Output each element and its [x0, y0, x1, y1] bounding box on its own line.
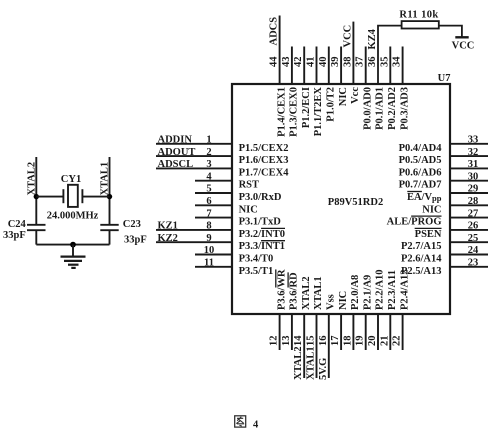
- pin 43 wire (P1.3/CEX0): [281, 47, 300, 137]
- svg-text:P0.3/AD3: P0.3/AD3: [399, 87, 410, 130]
- svg-text:29: 29: [468, 184, 479, 195]
- svg-text:16: 16: [318, 336, 329, 347]
- svg-text:22: 22: [392, 336, 403, 347]
- pin 32 wire (P0.5/AD5): [399, 147, 488, 166]
- svg-text:38: 38: [342, 57, 353, 68]
- pin 34 wire (P0.3/AD3): [392, 47, 411, 130]
- svg-text:34: 34: [392, 56, 403, 67]
- svg-text:P1.2/ECI: P1.2/ECI: [301, 87, 312, 128]
- svg-text:P2.0/A8: P2.0/A8: [350, 275, 361, 310]
- svg-text:43: 43: [281, 57, 292, 68]
- pin 40 wire (P1.0/T2): [318, 47, 337, 122]
- pin 30 wire (P0.7/AD7): [399, 171, 488, 190]
- svg-text:32: 32: [468, 147, 479, 158]
- svg-text:P1.7/CEX4: P1.7/CEX4: [239, 167, 290, 178]
- svg-text:10: 10: [204, 245, 215, 256]
- pin 20 wire (P2.2/A10): [367, 269, 386, 350]
- svg-text:P1.3/CEX0: P1.3/CEX0: [289, 87, 300, 137]
- svg-text:P1.0/T2: P1.0/T2: [326, 87, 337, 122]
- svg-text:28: 28: [468, 196, 479, 207]
- svg-text:C24: C24: [8, 219, 27, 230]
- pin 4 wire (RST): [195, 171, 259, 190]
- svg-text:33pF: 33pF: [3, 230, 26, 241]
- pin 44 wire (P1.4/CEX1): [269, 16, 288, 137]
- pin 36 wire (P0.1/AD1): [367, 26, 402, 130]
- pin 25 wire (P2.7/A15): [401, 233, 488, 252]
- svg-text:24: 24: [468, 245, 479, 256]
- pin 29 wire (EA/Vpp): [407, 184, 488, 204]
- svg-text:5: 5: [206, 184, 211, 195]
- wire C23 down: [109, 230, 111, 244]
- svg-text:NIC: NIC: [338, 87, 349, 106]
- svg-text:P0.4/AD4: P0.4/AD4: [399, 143, 443, 154]
- wire crystal to XTAL1: [82, 196, 109, 198]
- svg-text:2: 2: [206, 147, 211, 158]
- svg-text:EA/Vpp: EA/Vpp: [407, 192, 442, 203]
- svg-text:KZ4: KZ4: [367, 28, 378, 49]
- svg-text:5V.G: 5V.G: [318, 358, 329, 380]
- pin 35 wire (P0.2/AD2): [379, 47, 398, 130]
- resistor R11 10k: [399, 10, 438, 29]
- pin 19 wire (P2.1/A9): [355, 275, 374, 350]
- pin 3 wire (P1.7/CEX4): [156, 159, 289, 178]
- svg-text:17: 17: [330, 336, 341, 347]
- crystal CY1 24.000MHz: [47, 174, 99, 221]
- junction dot XTAL2: [34, 194, 39, 199]
- svg-text:ADSCL: ADSCL: [158, 159, 194, 170]
- svg-text:KZ1: KZ1: [158, 221, 178, 232]
- svg-text:31: 31: [468, 159, 479, 170]
- pin 39 wire (NIC): [330, 47, 349, 107]
- pin 7 wire (P3.1/TxD): [195, 208, 281, 227]
- pin 15 wire (XTAL1): [306, 276, 325, 380]
- svg-text:VCC: VCC: [452, 41, 475, 52]
- svg-text:ADOUT: ADOUT: [158, 147, 196, 158]
- pin 22 wire (P2.4/A12): [392, 269, 411, 350]
- pin 10 wire (P3.4/T0): [195, 245, 273, 264]
- svg-text:R11 10k: R11 10k: [399, 10, 438, 21]
- svg-text:XTAL1: XTAL1: [306, 346, 317, 380]
- svg-text:18: 18: [342, 336, 353, 347]
- svg-text:ALE/PROG: ALE/PROG: [387, 217, 442, 228]
- power symbol VCC: [452, 37, 475, 51]
- svg-text:36: 36: [367, 57, 378, 68]
- svg-text:Vcc: Vcc: [350, 87, 361, 104]
- pin 42 wire (P1.2/ECI): [293, 47, 312, 129]
- pin 9 wire (P3.3/INT1): [156, 233, 285, 252]
- svg-text:C23: C23: [123, 219, 141, 230]
- svg-text:P0.7/AD7: P0.7/AD7: [399, 180, 442, 191]
- svg-text:42: 42: [293, 57, 304, 68]
- wire R11 to VCC: [439, 26, 462, 37]
- svg-text:13: 13: [281, 336, 292, 347]
- svg-text:35: 35: [379, 57, 390, 68]
- svg-text:P89V51RD2: P89V51RD2: [328, 197, 383, 208]
- svg-text:12: 12: [269, 336, 280, 347]
- pin 11 wire (P3.5/T1): [195, 258, 273, 277]
- svg-text:23: 23: [468, 258, 479, 269]
- svg-text:P3.6/WR: P3.6/WR: [276, 269, 287, 310]
- svg-text:P2.3/A11: P2.3/A11: [387, 270, 398, 310]
- svg-text:8: 8: [206, 221, 211, 232]
- svg-text:20: 20: [367, 336, 378, 347]
- svg-text:U7: U7: [438, 73, 451, 84]
- svg-text:XTAL2: XTAL2: [27, 162, 38, 196]
- svg-text:7: 7: [206, 208, 211, 219]
- svg-text:4: 4: [253, 419, 259, 430]
- svg-text:P3.5/T1: P3.5/T1: [239, 266, 274, 277]
- pin 24 wire (P2.6/A14): [401, 245, 488, 264]
- pin 33 wire (P0.4/AD4): [399, 135, 488, 154]
- svg-text:19: 19: [355, 336, 366, 347]
- svg-text:1: 1: [206, 135, 211, 146]
- svg-text:P1.1/T2EX: P1.1/T2EX: [313, 87, 324, 137]
- node XTAL2: [27, 157, 38, 225]
- svg-text:XTAL2: XTAL2: [293, 346, 304, 380]
- svg-text:P1.4/CEX1: P1.4/CEX1: [276, 87, 287, 137]
- svg-text:25: 25: [468, 233, 479, 244]
- capacitor C23 33pF: [100, 219, 146, 246]
- svg-text:P3.3/INT1: P3.3/INT1: [239, 241, 285, 252]
- svg-text:15: 15: [306, 336, 317, 347]
- svg-text:P0.6/AD6: P0.6/AD6: [399, 167, 442, 178]
- svg-text:P3.0/RxD: P3.0/RxD: [239, 192, 282, 203]
- svg-text:37: 37: [355, 57, 366, 68]
- caption figure 4: [235, 416, 246, 427]
- pin 38 wire (Vcc): [342, 22, 361, 104]
- pin 16 wire (Vss): [318, 294, 337, 380]
- svg-text:33pF: 33pF: [124, 235, 147, 246]
- svg-text:P0.2/AD2: P0.2/AD2: [387, 87, 398, 130]
- svg-text:9: 9: [206, 233, 211, 244]
- pin 28 wire (NIC): [422, 196, 488, 215]
- svg-text:44: 44: [269, 56, 280, 67]
- svg-text:ADCS: ADCS: [269, 17, 280, 46]
- svg-text:27: 27: [468, 208, 479, 219]
- svg-text:P1.6/CEX3: P1.6/CEX3: [239, 155, 289, 166]
- pin 14 wire (XTAL2): [293, 276, 312, 380]
- svg-text:P2.1/A9: P2.1/A9: [362, 275, 373, 310]
- pin 26 wire (PSEN): [415, 221, 488, 240]
- svg-text:P2.4/A12: P2.4/A12: [399, 269, 410, 310]
- svg-text:30: 30: [468, 171, 479, 182]
- svg-text:XTAL1: XTAL1: [100, 162, 111, 196]
- junction dot XTAL1: [107, 194, 112, 199]
- svg-text:RST: RST: [239, 180, 259, 191]
- junction dot ground: [70, 242, 76, 248]
- svg-text:VCC: VCC: [342, 25, 353, 48]
- svg-text:XTAL2: XTAL2: [301, 276, 312, 310]
- svg-text:4: 4: [206, 171, 212, 182]
- svg-text:NIC: NIC: [239, 204, 258, 215]
- pin 21 wire (P2.3/A11): [379, 270, 398, 350]
- node XTAL1: [100, 157, 111, 225]
- svg-text:P2.6/A14: P2.6/A14: [401, 254, 442, 265]
- pin 41 wire (P1.1/T2EX): [306, 47, 325, 137]
- pin 5 wire (P3.0/RxD): [195, 184, 282, 203]
- svg-text:26: 26: [468, 221, 479, 232]
- pin 37 wire (P0.0/AD0): [355, 47, 374, 130]
- svg-text:41: 41: [306, 57, 317, 68]
- svg-text:PSEN: PSEN: [415, 229, 442, 240]
- svg-text:11: 11: [204, 258, 214, 269]
- svg-text:XTAL1: XTAL1: [313, 276, 324, 310]
- svg-text:Vss: Vss: [326, 294, 337, 310]
- pin 6 wire (NIC): [195, 196, 258, 215]
- IC U7 P89V51RD2 body: [232, 73, 451, 314]
- svg-text:21: 21: [379, 336, 390, 347]
- pin 2 wire (P1.6/CEX3): [156, 147, 288, 166]
- svg-text:39: 39: [330, 57, 341, 68]
- svg-text:P3.6/RD: P3.6/RD: [289, 272, 300, 310]
- svg-text:KZ2: KZ2: [158, 233, 178, 244]
- svg-text:33: 33: [468, 135, 479, 146]
- svg-text:24.000MHz: 24.000MHz: [47, 210, 99, 221]
- pin 12 wire (P3.6/WR): [269, 269, 288, 350]
- pin 17 wire (NIC): [330, 291, 349, 350]
- wire bottom rail: [36, 244, 109, 246]
- svg-text:40: 40: [318, 57, 329, 68]
- svg-text:ADDIN: ADDIN: [158, 135, 193, 146]
- wire XTAL2 to crystal: [36, 196, 63, 198]
- pin 31 wire (P0.6/AD6): [399, 159, 488, 178]
- pin 23 wire (P2.5/A13): [401, 258, 488, 277]
- svg-text:14: 14: [293, 335, 304, 346]
- svg-text:P2.7/A15: P2.7/A15: [401, 241, 442, 252]
- svg-text:6: 6: [206, 196, 211, 207]
- svg-text:P0.5/AD5: P0.5/AD5: [399, 155, 442, 166]
- svg-text:P3.4/T0: P3.4/T0: [239, 254, 274, 265]
- svg-text:P0.0/AD0: P0.0/AD0: [362, 87, 373, 130]
- svg-text:NIC: NIC: [338, 291, 349, 310]
- svg-text:NIC: NIC: [422, 204, 441, 215]
- ground: [61, 245, 86, 268]
- svg-text:P2.2/A10: P2.2/A10: [375, 269, 386, 310]
- capacitor C24 33pF: [3, 219, 45, 241]
- pin 18 wire (P2.0/A8): [342, 275, 361, 350]
- svg-text:P3.2/INT0: P3.2/INT0: [239, 229, 285, 240]
- pin 13 wire (P3.6/RD): [281, 272, 300, 350]
- wire C24 down: [35, 230, 37, 244]
- pin 8 wire (P3.2/INT0): [156, 221, 285, 240]
- svg-text:3: 3: [206, 159, 211, 170]
- svg-text:P1.5/CEX2: P1.5/CEX2: [239, 143, 289, 154]
- pin 27 wire (ALE/PROG): [387, 208, 488, 227]
- svg-text:CY1: CY1: [61, 174, 81, 185]
- svg-text:P0.1/AD1: P0.1/AD1: [375, 87, 386, 130]
- svg-text:P3.1/TxD: P3.1/TxD: [239, 217, 282, 228]
- pin 1 wire (P1.5/CEX2): [156, 135, 288, 154]
